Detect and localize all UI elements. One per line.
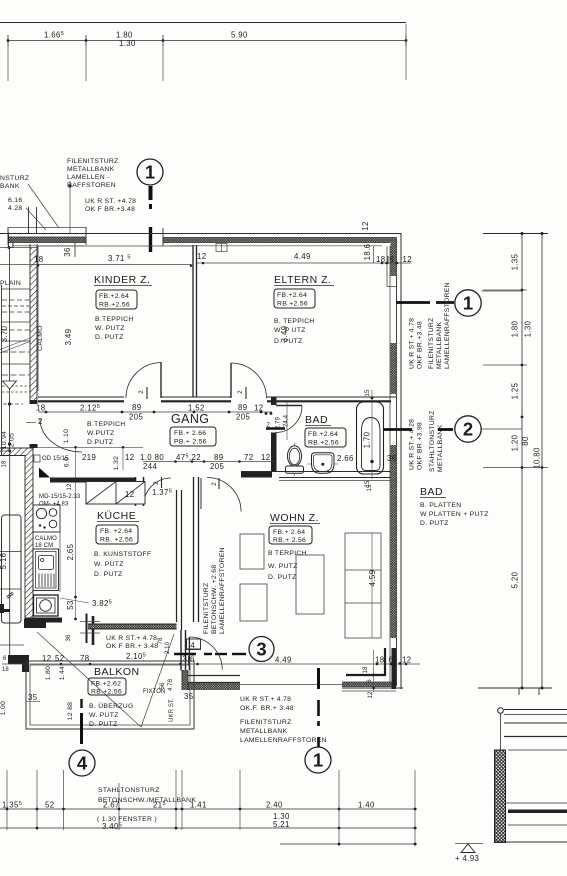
svg-text:2: 2: [139, 390, 145, 394]
furniture table: [296, 555, 324, 614]
svg-text:475,22: 475,22: [176, 453, 201, 462]
svg-text:OKF BR.+3.48: OKF BR.+3.48: [417, 321, 424, 369]
gang top dim line: [38, 411, 272, 413]
svg-text:D. PUTZ: D. PUTZ: [95, 334, 124, 341]
tick x=8: [7, 35, 9, 46]
svg-text:B. ÜBERZUG: B. ÜBERZUG: [89, 702, 134, 710]
svg-text:RB.+2.56: RB.+2.56: [91, 689, 122, 696]
reference dashed line to circle 1: [317, 668, 320, 689]
dim ext 18.6: [373, 246, 375, 263]
svg-text:15: 15: [365, 389, 371, 396]
svg-text:2: 2: [267, 423, 271, 429]
sink unit: [33, 549, 59, 591]
svg-text:36: 36: [63, 247, 72, 256]
wall hatched horizontal stub: [0, 448, 33, 456]
circle 3 leader dashes: [174, 653, 196, 655]
stair window bracket top: [8, 227, 86, 229]
kinder room left inner face: [37, 246, 39, 391]
svg-text:2.05: 2.05: [9, 433, 16, 447]
svg-text:12 88: 12 88: [67, 702, 74, 721]
svg-text:12: 12: [67, 483, 73, 490]
svg-text:12: 12: [197, 252, 206, 261]
svg-text:FILENITSTURZ: FILENITSTURZ: [67, 158, 119, 165]
door pier crosshatch: [182, 670, 188, 690]
svg-text:89: 89: [238, 403, 247, 412]
svg-text:FB.+2.64: FB.+2.64: [277, 292, 307, 299]
svg-text:52: 52: [45, 801, 54, 810]
svg-text:6: 6: [23, 654, 28, 663]
svg-text:1.25: 1.25: [511, 382, 520, 399]
svg-text:METALLBANK: METALLBANK: [436, 321, 443, 369]
tick y=365: [483, 364, 527, 366]
south wall inner corner L: [346, 674, 386, 676]
svg-text:1.00: 1.00: [0, 701, 7, 715]
svg-text:W. PUTZ: W. PUTZ: [95, 325, 125, 332]
window mullion mark: [216, 244, 227, 252]
gang lower edge line: [36, 446, 143, 448]
bad door arc: [276, 406, 303, 433]
tick y=417: [521, 416, 524, 419]
svg-text:METALLBANK: METALLBANK: [437, 424, 444, 472]
svg-text:18: 18: [2, 667, 9, 673]
svg-text:1.32: 1.32: [113, 456, 120, 470]
dim extension vline: [373, 650, 375, 692]
svg-text:RB.+ 2.56: RB.+ 2.56: [273, 537, 306, 544]
svg-text:18: 18: [2, 460, 8, 467]
svg-text:1.41: 1.41: [190, 801, 207, 810]
gang FB box: [170, 427, 216, 446]
balcony door leaf wohn: [188, 637, 190, 670]
right exterior wall lines: [389, 246, 391, 686]
svg-text:1.20: 1.20: [511, 434, 520, 451]
reference dashed line from circle 1: [149, 186, 153, 200]
svg-text:KINDER Z.: KINDER Z.: [94, 274, 150, 286]
svg-text:PLAIN: PLAIN: [0, 280, 21, 287]
svg-text:NSTURZ: NSTURZ: [0, 175, 29, 182]
section wall column crosshatched: [495, 750, 506, 843]
bad west wall lower: [271, 433, 277, 473]
svg-text:B. TEPPICH: B. TEPPICH: [274, 318, 315, 325]
svg-text:24,4: 24,4: [284, 414, 290, 427]
bad FB box: [305, 428, 346, 447]
svg-text:METALLBANK: METALLBANK: [240, 728, 288, 735]
partition wall kinder/eltern: [192, 245, 194, 397]
extension line x=8: [7, 46, 9, 81]
wohn door arc: [207, 478, 241, 512]
corner wall dark pair: [392, 648, 397, 689]
kinder door arc: [126, 363, 161, 399]
svg-text:STAHLTONSTURZ: STAHLTONSTURZ: [429, 410, 436, 472]
svg-text:BALKON: BALKON: [94, 666, 140, 678]
svg-text:205: 205: [236, 413, 250, 422]
balcony diagonal 1: [37, 632, 141, 727]
eltern FB box: [274, 289, 315, 308]
svg-text:RB.+2.56: RB.+2.56: [99, 302, 130, 309]
extension verticals: [75, 447, 77, 505]
svg-text:1.30: 1.30: [119, 39, 136, 48]
svg-text:FILENITSTURZ: FILENITSTURZ: [203, 582, 210, 634]
svg-text:18: 18: [34, 255, 43, 264]
kitchen top wall: [50, 478, 136, 483]
svg-text:1.0 80: 1.0 80: [140, 453, 164, 462]
tick x=86: [85, 35, 87, 46]
west wall hatched upper: [30, 248, 37, 400]
svg-text:B. KUNSTSTOFF: B. KUNSTSTOFF: [94, 551, 151, 558]
od marker box: [34, 455, 40, 462]
svg-text:UK R ST.+ 4.78: UK R ST.+ 4.78: [409, 318, 416, 369]
bottom dim line 3: [280, 843, 417, 845]
svg-text:4.78: 4.78: [168, 678, 174, 691]
symbol circle 2: [455, 416, 481, 442]
svg-text:2: 2: [212, 482, 218, 486]
counter edge: [59, 505, 61, 592]
lower edge line: [0, 644, 24, 646]
svg-text:2.67: 2.67: [103, 801, 120, 810]
svg-text:4.28: 4.28: [8, 205, 22, 212]
entry door arc: [40, 419, 82, 452]
svg-text:244: 244: [143, 462, 157, 471]
bad door leaf: [276, 405, 302, 407]
right wall window bad+wohn: [391, 445, 397, 638]
column marker triangle: [39, 468, 50, 478]
svg-text:RB.+2.56: RB.+2.56: [277, 301, 308, 308]
kinder dim line: [0, 264, 191, 266]
svg-text:+ 4.93: + 4.93: [455, 854, 479, 863]
svg-text:D. PUTZ: D. PUTZ: [94, 571, 123, 578]
door jamb top: [30, 400, 38, 404]
washbasin: [312, 453, 335, 474]
landing lines: [0, 551, 21, 553]
wall kueche/balcony east: [88, 624, 177, 629]
kitchen door jambs: [135, 477, 137, 506]
lintel tick kitchen door: [161, 477, 163, 488]
top tick line: [483, 233, 548, 235]
right dim line 2: [541, 233, 543, 688]
svg-text:18: 18: [36, 404, 45, 413]
svg-text:36: 36: [387, 454, 396, 463]
pier line: [74, 243, 76, 258]
svg-text:10.94: 10.94: [1, 431, 8, 450]
svg-text:3.49: 3.49: [64, 329, 73, 346]
bathtub outer: [357, 402, 384, 474]
svg-text:2: 2: [463, 419, 473, 440]
svg-text:12: 12: [361, 221, 370, 230]
section rail lines: [504, 709, 567, 711]
kueche FB box: [96, 525, 138, 544]
svg-text:UK R ST.+ 4.28: UK R ST.+ 4.28: [409, 419, 416, 470]
svg-text:12: 12: [368, 691, 374, 698]
svg-text:RB.+2.56: RB.+2.56: [308, 440, 339, 447]
svg-text:3.70: 3.70: [0, 325, 9, 342]
svg-text:56: 56: [160, 682, 166, 689]
lintel tick eltern: [245, 387, 247, 399]
stair left boundary: [1, 285, 3, 455]
south window band wohn: [183, 683, 240, 689]
svg-text:PB.+ 2.56: PB.+ 2.56: [174, 439, 207, 446]
appliance: [34, 595, 59, 616]
svg-text:4.49: 4.49: [275, 656, 292, 665]
kinder room top inner face: [38, 245, 193, 247]
svg-text:3: 3: [183, 655, 188, 664]
post line: [500, 714, 502, 751]
bad lintel bar: [266, 427, 285, 429]
svg-text:1.10: 1.10: [63, 429, 70, 443]
svg-text:RB. +2.56: RB. +2.56: [100, 537, 133, 544]
bottom dim line 1: [0, 808, 417, 810]
marker 4 box: [187, 639, 201, 649]
svg-text:UK R ST.+ 4.78: UK R ST.+ 4.78: [106, 635, 157, 642]
svg-text:2.79: 2.79: [276, 416, 282, 429]
kueche east wall: [176, 490, 178, 622]
svg-text:15: 15: [367, 484, 373, 491]
lintel tick kinder: [146, 387, 148, 399]
svg-text:18: 18: [363, 666, 369, 673]
circle 1 leader line: [396, 301, 430, 304]
sofa: [345, 533, 381, 638]
dim line left vertical: [9, 449, 11, 658]
extension line x=406: [405, 24, 407, 80]
svg-text:2.10: 2.10: [165, 641, 171, 654]
svg-text:OK F BR.+ 3.48: OK F BR.+ 3.48: [106, 643, 158, 650]
svg-text:W.PUTZ: W.PUTZ: [87, 430, 114, 437]
symbol circle 1 right: [455, 290, 481, 316]
eltern dim line: [197, 262, 411, 264]
eltern door arc: [231, 363, 267, 399]
bad door dim extension: [286, 402, 288, 440]
svg-text:12: 12: [42, 654, 51, 663]
dark mark: [1, 609, 10, 612]
wohn west wall: [193, 477, 195, 622]
svg-text:FB.+ 2.64: FB.+ 2.64: [273, 529, 305, 536]
bad west wall upper: [271, 397, 277, 405]
stair diagonal slope lines: [0, 342, 30, 354]
dim line 4.59: [371, 533, 373, 638]
kitchen dim line vertical: [75, 505, 77, 620]
svg-text:CALMO: CALMO: [37, 325, 44, 351]
dimension line top: [8, 40, 406, 42]
kitchen door arc: [144, 478, 172, 506]
top border line: [0, 22, 406, 24]
svg-text:2.40: 2.40: [266, 801, 283, 810]
symbol circle 3: [249, 637, 274, 662]
svg-text:2: 2: [154, 481, 160, 485]
right wall window eltern low: [391, 343, 397, 394]
toilet bowl: [288, 446, 302, 466]
svg-text:219: 219: [82, 453, 96, 462]
svg-text:72: 72: [244, 453, 253, 462]
kitchen lower wall bar: [25, 618, 62, 623]
leader line: [26, 208, 46, 230]
svg-text:B TERPICH: B TERPICH: [268, 550, 307, 557]
door pier wall: [180, 630, 182, 671]
svg-text:D. PUTZ: D. PUTZ: [420, 520, 449, 527]
tick y=290: [483, 289, 527, 291]
svg-text:1.70: 1.70: [363, 431, 372, 448]
symbol circle 1 top: [137, 159, 163, 185]
svg-text:FB.+ 2.66: FB.+ 2.66: [174, 430, 206, 437]
south thin line: [240, 684, 390, 686]
south dim line: [2, 663, 420, 665]
svg-text:METALLBANK: METALLBANK: [67, 166, 115, 173]
tick y=467.5: [483, 467, 548, 469]
right wall window eltern top: [391, 238, 397, 276]
section detail circle: [498, 708, 504, 714]
svg-text:3.49: 3.49: [280, 326, 289, 343]
svg-text:W. PUTZ: W. PUTZ: [89, 712, 119, 719]
balcony anchor stub vertical: [22, 655, 29, 672]
svg-text:1: 1: [313, 750, 323, 771]
svg-text:89: 89: [214, 453, 223, 462]
north facade outer line: [0, 233, 402, 235]
svg-text:12: 12: [254, 404, 263, 413]
main window band 5.90: [163, 238, 397, 243]
svg-text:UK R ST. +4.78: UK R ST. +4.78: [85, 198, 136, 205]
svg-text:B. PLATTEN: B. PLATTEN: [420, 502, 461, 509]
stair walk line: [9, 248, 11, 449]
extension verticals: [6, 770, 8, 830]
svg-text:1.80: 1.80: [45, 666, 52, 680]
svg-text:LAMELLEN -: LAMELLEN -: [67, 174, 110, 181]
leader line: [60, 598, 89, 603]
svg-text:5.21: 5.21: [273, 820, 290, 829]
cooktop: [33, 505, 60, 532]
corner reveal bracket eltern: [387, 247, 396, 287]
small wall mark left edge: [0, 604, 4, 613]
balcony door leafs: [86, 614, 88, 644]
washbasin centerline: [307, 463, 338, 465]
svg-text:FILENITSTURZ: FILENITSTURZ: [428, 317, 435, 369]
svg-text:B.TEPPICH: B.TEPPICH: [87, 421, 126, 428]
svg-text:2.65: 2.65: [66, 543, 75, 560]
wohn FB box: [269, 526, 312, 544]
bathtub inner basin: [362, 418, 381, 471]
balcony diagonal 2: [141, 634, 174, 727]
bedroom wall segment west: [38, 396, 124, 398]
svg-text:4: 4: [77, 753, 88, 774]
svg-text:ELTERN Z.: ELTERN Z.: [274, 274, 331, 286]
svg-text:FB.+2.64: FB.+2.64: [99, 293, 129, 300]
svg-text:5.16: 5.16: [0, 553, 8, 570]
south window band corner: [342, 682, 394, 687]
stair treads: [2, 288, 30, 290]
extension line x=86: [85, 46, 87, 81]
svg-text:3: 3: [256, 639, 266, 660]
svg-text:1.44: 1.44: [59, 666, 66, 680]
wohn door leaf: [200, 478, 202, 509]
svg-text:W. PUTZ: W. PUTZ: [94, 561, 124, 568]
toilet cistern: [286, 466, 304, 473]
lintel tick wohn door: [218, 478, 220, 489]
svg-text:GANG: GANG: [171, 412, 209, 426]
svg-text:D.PUTZ: D.PUTZ: [87, 439, 113, 446]
svg-text:OKF BR.+3.98: OKF BR.+3.98: [417, 422, 424, 470]
window sill stairwell: [12, 245, 84, 247]
svg-text:BAD: BAD: [420, 486, 443, 498]
toilet centerline: [294, 443, 296, 476]
svg-text:6: 6: [3, 656, 7, 662]
svg-text:1.80: 1.80: [511, 320, 520, 337]
svg-text:FB. +2.64: FB. +2.64: [100, 528, 132, 535]
svg-text:1.30: 1.30: [524, 320, 533, 337]
svg-text:FB.+2.64: FB.+2.64: [308, 431, 338, 438]
svg-text:205: 205: [210, 462, 224, 471]
leader vertical: [69, 181, 71, 233]
svg-text:BANK: BANK: [0, 183, 20, 190]
bottom tick line: [478, 687, 552, 689]
reference dashed line to circle 4: [80, 699, 82, 708]
svg-text:FB.+2.62: FB.+2.62: [91, 681, 121, 688]
slab line: [508, 749, 567, 751]
svg-text:78: 78: [158, 637, 164, 644]
svg-text:80: 80: [521, 436, 530, 446]
svg-text:KÜCHE: KÜCHE: [97, 510, 136, 522]
svg-text:78: 78: [80, 654, 89, 663]
svg-text:W. PUTZ: W. PUTZ: [268, 563, 298, 570]
wall stub above plan: [28, 207, 30, 233]
kinder door leaf: [160, 362, 162, 398]
svg-text:WOHN Z.: WOHN Z.: [270, 512, 319, 524]
svg-text:12: 12: [261, 453, 270, 462]
svg-text:UK R ST.+ 4.78: UK R ST.+ 4.78: [240, 696, 291, 703]
window sill main: [170, 245, 382, 247]
furniture rect 1: [240, 534, 264, 569]
svg-text:W PLATTEN + PUTZ: W PLATTEN + PUTZ: [420, 511, 489, 518]
landing shaft rect: [2, 515, 22, 623]
facade step bracket left: [9, 233, 14, 248]
tick x=163: [162, 35, 164, 46]
svg-text:12: 12: [125, 490, 134, 499]
tub dim line: [371, 390, 373, 479]
svg-text:205: 205: [129, 413, 143, 422]
ticks line3: [338, 843, 341, 846]
svg-text:UKR ST.: UKR ST.: [169, 698, 175, 722]
svg-text:1.35: 1.35: [511, 253, 520, 270]
window band stairwell: [8, 237, 86, 243]
svg-text:2: 2: [38, 417, 43, 426]
svg-text:LAMELLENRAFFSTOREN: LAMELLENRAFFSTOREN: [240, 737, 327, 744]
lower lines: [505, 802, 567, 804]
svg-text:RAFFSTOREN: RAFFSTOREN: [67, 182, 116, 189]
svg-text:2: 2: [238, 390, 244, 394]
svg-text:4.59: 4.59: [368, 570, 377, 587]
stair arrow: [3, 381, 17, 389]
svg-text:53: 53: [66, 600, 75, 609]
level marker line: [455, 843, 483, 845]
kinder FB box: [96, 290, 137, 309]
ticks line1: [6, 808, 9, 811]
svg-text:LAMELLENRAFFSTOREN: LAMELLENRAFFSTOREN: [444, 282, 451, 369]
svg-text:BAD: BAD: [305, 414, 328, 426]
svg-text:6.0: 6.0: [64, 457, 71, 467]
svg-text:36: 36: [66, 634, 72, 641]
balkon FB box: [88, 678, 126, 695]
svg-text:18 CM: 18 CM: [35, 543, 53, 549]
svg-text:STAHLTONSTURZ: STAHLTONSTURZ: [98, 787, 160, 794]
dash mark: [3, 403, 23, 405]
svg-text:18: 18: [375, 656, 384, 665]
shaft box with diagonals: [86, 482, 145, 505]
svg-text:1.40: 1.40: [358, 801, 375, 810]
svg-text:12: 12: [125, 453, 134, 462]
svg-text:6: 6: [367, 679, 373, 683]
eltern door leaf: [230, 363, 232, 398]
gang lower dim line: [143, 461, 274, 463]
slash ticks: [7, 592, 13, 597]
svg-text:6.16: 6.16: [8, 197, 22, 204]
level marker triangle: [461, 844, 475, 853]
bad bottom wall lines: [241, 471, 391, 473]
balcony inner lines: [30, 664, 190, 666]
